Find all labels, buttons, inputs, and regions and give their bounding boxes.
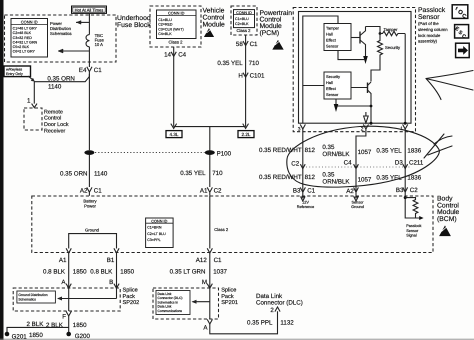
pin 2 — [361, 124, 369, 132]
svg-text:C1: C1 — [214, 257, 222, 264]
pin A1 (BCM ground) — [59, 248, 71, 263]
wire security sensor output arrow — [334, 99, 371, 112]
svg-text:Security: Security — [385, 45, 401, 50]
svg-text:Pack: Pack — [221, 293, 234, 300]
svg-text:D3: D3 — [395, 159, 403, 166]
wire below splice — [88, 155, 90, 187]
svg-text:C2=48 BLK: C2=48 BLK — [13, 31, 32, 35]
svg-text:P100: P100 — [217, 150, 232, 157]
svg-text:Connector (DLC): Connector (DLC) — [256, 300, 303, 307]
svg-text:Sensor: Sensor — [326, 43, 339, 48]
svg-text:1037: 1037 — [213, 268, 227, 275]
resistor Security — [378, 34, 402, 60]
wire tamper sensor lower tie — [338, 51, 366, 60]
svg-text:1140: 1140 — [48, 84, 62, 91]
passlock signal wire inside BCM — [405, 196, 419, 218]
svg-text:0.35 RED/WHT: 0.35 RED/WHT — [259, 147, 302, 154]
svg-text:2: 2 — [270, 307, 274, 314]
svg-text:A2: A2 — [346, 188, 354, 195]
pin 58 C1 (PCM) — [236, 41, 258, 48]
pin M (SP201) — [202, 279, 213, 288]
wire: left supply rail — [303, 16, 338, 123]
connector A2 (BCM sensor ground) — [346, 187, 358, 195]
svg-text:A12: A12 — [196, 257, 208, 264]
splice (on ORN wire) — [84, 150, 94, 155]
svg-text:H: H — [238, 73, 242, 80]
svg-text:0.35 YEL: 0.35 YEL — [376, 175, 402, 182]
wire passlock 12V reference (left) — [302, 129, 304, 192]
label Passlock Sensor Signal — [406, 224, 421, 238]
wire ORN 1140 main run down — [88, 74, 90, 150]
svg-text:Sensor: Sensor — [406, 229, 419, 233]
svg-text:710: 710 — [212, 170, 223, 177]
splice P100 — [205, 150, 232, 157]
svg-text:2.2L: 2.2L — [242, 132, 251, 137]
pin 3 — [298, 124, 306, 132]
pin A (SP202) — [61, 279, 71, 288]
svg-text:C1: C1 — [307, 188, 315, 195]
node (junction dot) — [379, 32, 382, 35]
svg-text:C1=BLU: C1=BLU — [158, 18, 172, 22]
label 0.35 YEL 710 (upper) — [217, 60, 259, 67]
svg-text:C4: C4 — [178, 52, 186, 59]
Powertrain Control Module box — [231, 6, 292, 37]
wire merged YEL 710 down — [209, 127, 211, 187]
svg-text:C101: C101 — [250, 73, 265, 80]
wire from tamper resistor to pin 1 — [404, 34, 406, 124]
svg-text:Pack: Pack — [123, 293, 136, 300]
Passlock Sensor outer box — [293, 7, 448, 132]
wire below fuse — [88, 47, 90, 67]
svg-text:C2: C2 — [291, 161, 299, 168]
wire 0.35 LT GRN 1037 — [170, 253, 228, 288]
svg-text:Sensor: Sensor — [351, 201, 364, 205]
svg-text:C3=CLR (WHT): C3=CLR (WHT) — [158, 27, 183, 31]
svg-text:1850: 1850 — [120, 268, 134, 275]
Passlock sensor inner housing — [299, 12, 412, 124]
Tamper Hall Effect Sensor — [324, 24, 351, 51]
svg-text:C1: C1 — [94, 67, 102, 74]
label Power Distribution Schematics — [50, 21, 72, 36]
svg-text:C2=RED: C2=RED — [158, 23, 173, 27]
svg-text:Entry Only: Entry Only — [6, 72, 23, 76]
svg-text:C6=2 LT GRY: C6=2 LT GRY — [13, 50, 36, 54]
label 0.35 ORN 1140 — [47, 75, 75, 90]
svg-text:ORN/BLK: ORN/BLK — [322, 178, 350, 185]
wire Q1 collector to top node — [366, 27, 381, 34]
in-line connector C211 row — [291, 159, 424, 168]
resistor (BCM passlock pull-up) — [405, 198, 418, 218]
svg-text:812: 812 — [305, 147, 316, 154]
svg-text:Ground Distribution: Ground Distribution — [18, 293, 47, 297]
svg-text:CONN ID: CONN ID — [236, 11, 252, 15]
svg-text:Class 2: Class 2 — [169, 40, 184, 45]
svg-text:2 BLK: 2 BLK — [46, 322, 64, 329]
toolbar icon next-arrow — [456, 43, 470, 57]
svg-text:Passlock: Passlock — [406, 224, 421, 228]
label 0.35 YEL 710 (lower) — [180, 170, 223, 177]
connector B3 C2 (BCM signal) — [396, 187, 418, 196]
Remote Control Door Lock Receiver box — [24, 108, 69, 135]
svg-text:M: M — [202, 279, 207, 286]
label 12V Reference + stub — [297, 196, 315, 209]
svg-text:0.8 BLK: 0.8 BLK — [43, 268, 66, 275]
svg-text:C1: C1 — [250, 41, 258, 48]
label Ground Distribution Schematics — [17, 291, 56, 303]
svg-text:ORN/BLK: ORN/BLK — [322, 151, 350, 158]
svg-text:Reference: Reference — [297, 205, 315, 209]
pin B1 (BCM ground) — [107, 248, 119, 263]
svg-text:C2=BLK: C2=BLK — [235, 22, 249, 26]
Hot At All Times label — [72, 6, 107, 13]
svg-text:SP202: SP202 — [123, 300, 140, 306]
connector B3 C1 (BCM 12V ref) — [293, 187, 316, 195]
wire passlock signal (middle, with jog) — [356, 129, 366, 192]
ESD warning triangle (PCM) — [272, 39, 285, 50]
transistor Q2 (security) — [351, 82, 371, 123]
svg-text:A: A — [61, 279, 66, 286]
svg-text:CONN ID: CONN ID — [21, 19, 38, 24]
svg-text:Effect: Effect — [326, 86, 337, 91]
svg-text:Class 2: Class 2 — [214, 227, 229, 232]
svg-text:1836: 1836 — [407, 147, 421, 154]
svg-text:0.35 LT GRN: 0.35 LT GRN — [170, 268, 206, 275]
node: bottom rail joints — [370, 122, 373, 125]
svg-text:0.35 YEL: 0.35 YEL — [180, 170, 206, 177]
svg-text:Communications: Communications — [158, 309, 183, 313]
connector ID table (BCM) — [146, 218, 174, 248]
svg-text:0.35 YEL: 0.35 YEL — [217, 60, 243, 67]
svg-text:Ground: Ground — [351, 205, 364, 209]
wire branch to Remote Control Door Lock Receiver — [34, 74, 89, 104]
wire arrow inside SP201 — [192, 288, 210, 319]
wire 0.35 PPL 1132 — [210, 311, 294, 334]
resistor Tamper — [380, 27, 405, 36]
connector A2 C1 (BCM) — [80, 187, 102, 195]
ground G200 — [66, 332, 90, 340]
label Battery Power — [83, 199, 97, 209]
svg-text:(BCM): (BCM) — [437, 216, 457, 223]
pin F (SP202) — [62, 311, 71, 320]
svg-text:1850: 1850 — [73, 322, 87, 329]
wire: engine-option merge line — [174, 126, 246, 128]
svg-text:1132: 1132 — [280, 320, 294, 327]
svg-text:58: 58 — [236, 41, 243, 48]
pin 1 (receiver) — [27, 98, 37, 108]
wire 0.8 BLK 1850 (A1) — [43, 253, 87, 288]
Underhood Fuse Block box — [5, 15, 152, 62]
svg-text:Splice: Splice — [221, 286, 236, 293]
label Data Link Connector (DLC) — [256, 293, 303, 307]
svg-text:Schematics: Schematics — [50, 31, 72, 36]
svg-text:B3: B3 — [293, 188, 301, 195]
toolbar icon TOC — [452, 5, 468, 20]
pin 1 — [400, 124, 408, 131]
svg-text:Power: Power — [84, 204, 96, 209]
svg-text:A1: A1 — [59, 257, 67, 264]
svg-text:F: F — [62, 314, 66, 321]
svg-text:C1: C1 — [94, 188, 102, 195]
ground G201 — [5, 332, 28, 340]
svg-text:Effect: Effect — [326, 37, 337, 42]
svg-text:(PCM): (PCM) — [260, 30, 280, 37]
label 0.35 RED/WHT 812 (row 2) — [259, 174, 315, 181]
svg-text:A: A — [203, 325, 208, 332]
svg-text:710: 710 — [249, 60, 260, 67]
label Data Link Connector (DLC) Schematics — [156, 291, 190, 315]
svg-text:Hall: Hall — [326, 80, 333, 85]
ESD warning triangle (BCM) — [438, 225, 451, 237]
connector ID table (PCM) — [234, 10, 255, 34]
label 0.35 YEL 1836 (row 1) — [376, 147, 421, 154]
svg-text:C211: C211 — [409, 159, 424, 166]
svg-text:0.35 PPL: 0.35 PPL — [247, 320, 273, 327]
svg-text:Passlock: Passlock — [418, 7, 446, 14]
svg-text:Receiver: Receiver — [44, 129, 65, 135]
svg-text:0.35 ORN: 0.35 ORN — [47, 75, 75, 82]
svg-text:C4: C4 — [344, 160, 352, 167]
svg-text:Control: Control — [44, 116, 61, 122]
connector A12 C1 (BCM serial data) — [196, 248, 222, 263]
Splice Pack SP201 box — [153, 286, 238, 319]
svg-text:C2=LT BLU: C2=LT BLU — [147, 232, 166, 236]
svg-text:1850: 1850 — [29, 332, 43, 339]
svg-text:Hot At All Times: Hot At All Times — [75, 8, 104, 13]
transistor Q1 (tamper) — [351, 27, 368, 65]
fuse TBC Fuse 10 A — [86, 33, 105, 47]
svg-text:w/Keyless: w/Keyless — [6, 68, 22, 72]
svg-text:812: 812 — [305, 174, 316, 181]
label Ground + internal ground bracket — [69, 227, 117, 248]
label 0.35 ORN/BLK 1057 (row 1) — [322, 144, 372, 158]
svg-text:4.3L: 4.3L — [170, 132, 179, 137]
svg-text:Module: Module — [203, 21, 226, 28]
svg-text:1057: 1057 — [358, 149, 372, 156]
Security Hall Effect Sensor — [324, 72, 351, 99]
svg-text:lock module: lock module — [418, 33, 441, 38]
pin B (SP202) — [109, 279, 119, 288]
wire 2 BLK 1850 branch (to G201) — [7, 321, 69, 339]
svg-text:B: B — [109, 279, 113, 286]
arrow branch (power distribution) — [58, 49, 89, 53]
svg-text:0.8 BLK: 0.8 BLK — [90, 268, 113, 275]
svg-text:Schematics: Schematics — [18, 297, 36, 301]
svg-text:Signal: Signal — [406, 234, 417, 238]
ESD warning triangle (VCM) — [203, 28, 214, 38]
svg-text:Class 2: Class 2 — [237, 28, 252, 33]
Splice Pack SP202 box — [13, 286, 139, 311]
svg-text:C1=BRN: C1=BRN — [147, 226, 162, 230]
label Sensor Ground + stub — [351, 196, 364, 209]
wire arrow inside SP202 — [57, 288, 117, 311]
arrow to Power Distribution Schematics — [76, 21, 89, 25]
svg-text:C2: C2 — [410, 187, 418, 194]
svg-text:steering column: steering column — [418, 27, 448, 32]
pin 2 (DLC) — [270, 307, 280, 314]
wire Class 2 through BCM — [210, 196, 229, 249]
svg-text:Security: Security — [326, 74, 340, 79]
svg-text:assembly): assembly) — [418, 39, 438, 44]
svg-text:0.35 YEL: 0.35 YEL — [376, 147, 402, 154]
connector ID table (VCM) — [157, 10, 197, 45]
label 0.35 ORN/BLK 1057 (row 2) — [322, 171, 372, 185]
wire security resistor to Q2 collector — [371, 60, 380, 82]
svg-text:Tamper: Tamper — [326, 25, 340, 30]
svg-text:C2: C2 — [214, 188, 222, 195]
Body Control Module (BCM) box — [32, 196, 460, 253]
svg-text:C4=BLK: C4=BLK — [158, 32, 172, 36]
Vehicle Control Module box — [150, 6, 225, 47]
pin 14 C4 (VCM) — [164, 52, 187, 59]
svg-text:12V: 12V — [302, 201, 309, 205]
wire: arrow above pin 2 — [364, 112, 369, 123]
hand-drawn arrow annotation — [426, 71, 473, 100]
svg-text:Sensor: Sensor — [418, 14, 440, 21]
wire 2 BLK 1850 (to G200) — [46, 316, 87, 334]
pin A (SP201) — [203, 319, 212, 331]
svg-text:(Part of the: (Part of the — [418, 21, 439, 26]
wire 0.8 BLK 1850 (B1) — [90, 253, 134, 288]
svg-text:G201: G201 — [12, 334, 28, 340]
wire: splice dotted tie — [95, 152, 205, 154]
connector H C101 — [238, 73, 265, 80]
svg-text:Remote: Remote — [44, 109, 63, 115]
svg-text:Tamper: Tamper — [384, 27, 399, 32]
svg-text:C1=48 LT GRY: C1=48 LT GRY — [13, 27, 38, 31]
svg-text:2 BLK: 2 BLK — [27, 321, 45, 328]
connector ID table (Underhood Fuse Block) — [11, 19, 48, 58]
wire VCM C4 down — [173, 47, 175, 127]
svg-text:1: 1 — [27, 98, 31, 105]
connector A1 C2 (BCM) — [200, 187, 222, 195]
svg-text:G200: G200 — [75, 333, 91, 340]
option arrow 4.3L — [166, 124, 182, 138]
svg-text:Hall: Hall — [326, 31, 333, 36]
connector E4 C1 — [79, 67, 102, 74]
wire PCM down — [245, 35, 247, 127]
svg-text:C4=32 LT GRN: C4=32 LT GRN — [13, 40, 38, 44]
wire rail to security sensor — [303, 85, 324, 87]
svg-text:14: 14 — [164, 52, 171, 59]
wire passlock sensor ground (right) — [404, 129, 406, 192]
svg-text:Fuse Block: Fuse Block — [117, 22, 151, 29]
svg-text:1850: 1850 — [73, 268, 87, 275]
node at resistor tap — [404, 196, 407, 199]
svg-text:Door Lock: Door Lock — [44, 122, 69, 128]
svg-text:3: 3 — [298, 126, 301, 132]
hand-drawn ellipse annotation — [287, 126, 452, 187]
svg-text:C1=BLU: C1=BLU — [235, 17, 249, 21]
toolbar icon ESC — [454, 25, 469, 41]
svg-text:E4: E4 — [79, 67, 87, 74]
svg-text:B1: B1 — [107, 257, 115, 264]
svg-text:A1: A1 — [200, 188, 208, 195]
svg-text:SP201: SP201 — [221, 300, 238, 306]
svg-text:1140: 1140 — [94, 171, 108, 178]
svg-text:10 A: 10 A — [95, 42, 104, 47]
svg-text:Ground: Ground — [85, 227, 100, 232]
svg-text:2: 2 — [361, 126, 364, 132]
svg-text:Splice: Splice — [123, 286, 138, 293]
wire: feed from Hot At All Times down through fuse — [88, 13, 90, 34]
svg-text:CONN ID: CONN ID — [151, 219, 167, 223]
label 0.35 YEL 1836 (row 2) — [376, 175, 421, 182]
svg-text:C5=2 BLK: C5=2 BLK — [13, 45, 30, 49]
label 0.35 ORN 1140 (lower) — [60, 171, 108, 178]
svg-text:0.35: 0.35 — [322, 171, 335, 178]
svg-text:C3=PPL: C3=PPL — [147, 238, 161, 242]
svg-text:C3=32 RED: C3=32 RED — [13, 36, 33, 40]
svg-text:CONN ID: CONN ID — [168, 11, 185, 16]
svg-text:1057: 1057 — [358, 177, 372, 184]
w/Keyless Entry Only label — [4, 66, 35, 81]
svg-text:0.35: 0.35 — [322, 144, 335, 151]
node: emitter junction — [370, 105, 373, 108]
label 0.35 RED/WHT 812 (row 1) — [259, 147, 315, 154]
scan page edges — [0, 0, 4, 340]
svg-text:0.35 ORN: 0.35 ORN — [60, 171, 88, 178]
svg-text:Sensor: Sensor — [326, 92, 339, 97]
option arrow 2.2L — [238, 124, 254, 138]
